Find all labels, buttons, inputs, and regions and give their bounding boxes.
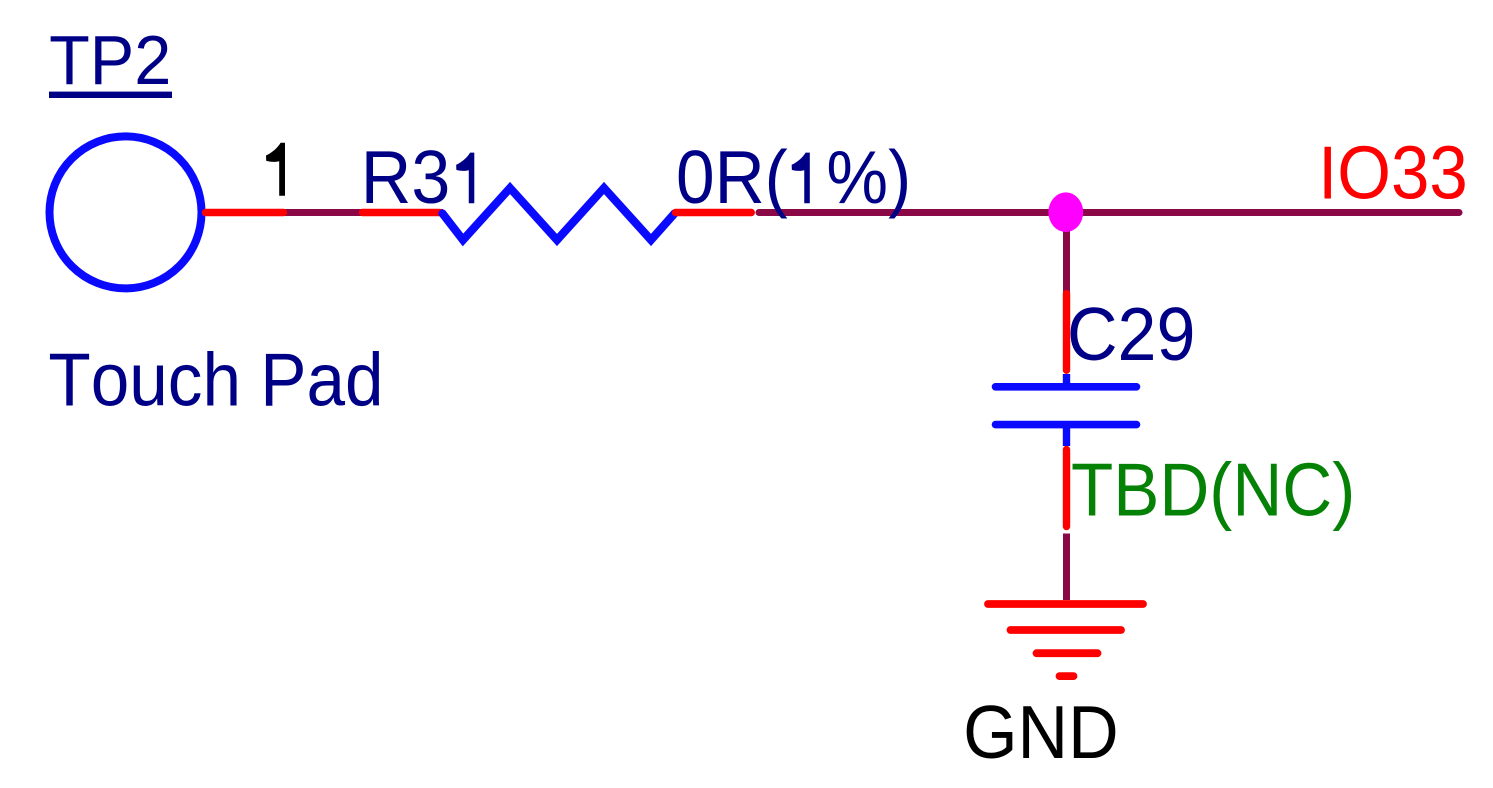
capacitor C29 top plate with lead — [996, 374, 1137, 387]
svg-text:IO33: IO33 — [1318, 132, 1468, 215]
pin stub R31 pin2 — [676, 209, 752, 216]
wire R31 pin2 to IO33 — [759, 209, 1459, 216]
resistor R31 reference label — [361, 136, 475, 220]
svg-text:R3: R3 — [361, 136, 450, 220]
pin stub R31 pin1 — [363, 209, 440, 216]
pin 1 stub of TP2 — [206, 209, 284, 216]
resistor R31 body — [443, 188, 675, 240]
pin stub C29 pin2 — [1063, 450, 1070, 527]
testpoint TP2 pad circle — [50, 136, 202, 288]
wire C29 pin2 to GND — [1063, 534, 1070, 601]
svg-text:Touch Pad: Touch Pad — [48, 339, 383, 422]
pin number 1 of TP2 — [266, 143, 285, 196]
resistor R31 value label 0R(1%) — [676, 137, 911, 220]
svg-text:GND: GND — [963, 691, 1119, 775]
ground symbol GND — [988, 604, 1143, 676]
junction node dot — [1048, 192, 1083, 232]
svg-text:%): %) — [826, 137, 911, 220]
svg-text:C29: C29 — [1067, 293, 1195, 377]
svg-text:TBD(NC): TBD(NC) — [1071, 449, 1355, 532]
svg-text:TP2: TP2 — [49, 22, 171, 100]
wire TP2 pin1 to R31 pin1 — [205, 209, 443, 216]
testpoint TP2 reference label — [49, 22, 172, 100]
svg-text:0R(: 0R( — [676, 137, 788, 220]
pin stub C29 pin1 — [1063, 294, 1070, 371]
capacitor C29 bottom plate with lead — [996, 425, 1137, 446]
wire junction down to C29 pin1 — [1063, 213, 1070, 296]
